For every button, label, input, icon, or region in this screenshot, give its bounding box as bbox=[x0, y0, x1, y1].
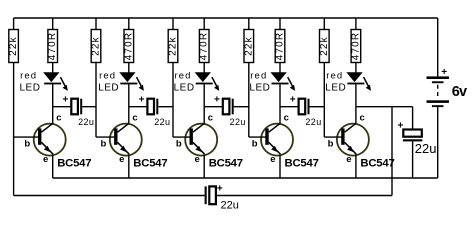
svg-text:b: b bbox=[328, 139, 334, 150]
wire feedback bottom bus right segment bbox=[216, 195, 392, 197]
capacitor C5 22u output bbox=[397, 107, 436, 178]
svg-text:c: c bbox=[132, 112, 137, 123]
wire 22k R7 to Q4 base bbox=[248, 63, 250, 138]
wire feedback bottom bus left segment bbox=[14, 195, 205, 197]
transistor Q4 BC547 bbox=[261, 123, 293, 155]
svg-text:22u: 22u bbox=[415, 141, 437, 156]
svg-text:b: b bbox=[24, 139, 30, 150]
svg-text:LED: LED bbox=[249, 82, 270, 93]
svg-text:470R: 470R bbox=[47, 32, 58, 61]
svg-text:+: + bbox=[214, 94, 220, 105]
svg-text:+: + bbox=[62, 94, 68, 105]
capacitor C4 22u coupling bbox=[280, 94, 324, 127]
LED D1 red bbox=[44, 73, 68, 91]
svg-text:470R: 470R bbox=[275, 32, 286, 61]
svg-text:22u: 22u bbox=[221, 199, 239, 211]
resistor R4 470R bbox=[123, 18, 134, 63]
resistor R6 470R bbox=[199, 18, 210, 63]
capacitor C2 22u coupling bbox=[129, 94, 173, 127]
resistor R10 470R bbox=[350, 18, 361, 63]
resistor R3 22k bbox=[91, 18, 102, 63]
capacitor C1 22u coupling bbox=[53, 94, 96, 127]
svg-text:c: c bbox=[56, 112, 61, 123]
svg-text:e: e bbox=[195, 154, 200, 165]
svg-text:+: + bbox=[217, 184, 223, 195]
svg-text:470R: 470R bbox=[123, 32, 134, 61]
svg-text:+: + bbox=[139, 94, 145, 105]
resistor R2 470R bbox=[47, 18, 58, 63]
wire 470R to LED D1 bbox=[52, 63, 54, 73]
wire LED D5 cathode to Q5 collector bbox=[355, 84, 357, 124]
wire 22k R9 to Q5 base bbox=[323, 63, 325, 138]
transistor Q1 BC547 bbox=[34, 123, 66, 155]
resistor R8 470R bbox=[275, 18, 286, 63]
svg-text:BC547: BC547 bbox=[57, 157, 91, 169]
svg-text:e: e bbox=[43, 154, 48, 165]
wire LED D1 cathode to Q1 collector bbox=[52, 84, 54, 124]
LED D3 red bbox=[196, 73, 220, 91]
capacitor C3 22u coupling bbox=[204, 94, 249, 127]
svg-text:LED: LED bbox=[174, 82, 195, 93]
wire top positive supply bus bbox=[14, 17, 438, 19]
svg-text:BC547: BC547 bbox=[133, 157, 167, 169]
wire 470R to LED D5 bbox=[355, 63, 357, 73]
svg-text:BC547: BC547 bbox=[360, 157, 394, 169]
svg-text:BC547: BC547 bbox=[285, 157, 319, 169]
wire Q3 emitter to ground bus bbox=[203, 155, 205, 178]
wire feedback Q5 collector down bbox=[391, 107, 393, 196]
svg-text:red: red bbox=[250, 70, 267, 81]
svg-text:e: e bbox=[346, 154, 351, 165]
wire Q4 emitter to ground bus bbox=[279, 155, 281, 178]
svg-text:red: red bbox=[175, 70, 192, 81]
svg-text:red: red bbox=[20, 70, 37, 81]
svg-text:22k: 22k bbox=[168, 36, 179, 56]
resistor R9 22k bbox=[319, 18, 330, 63]
LED D4 red bbox=[272, 73, 296, 91]
svg-text:b: b bbox=[101, 139, 107, 150]
svg-text:red: red bbox=[326, 70, 343, 81]
wire Q1 emitter to ground bus bbox=[52, 155, 54, 178]
wire 22k R3 to Q2 base bbox=[95, 63, 97, 138]
svg-text:+: + bbox=[290, 94, 296, 105]
svg-text:b: b bbox=[176, 139, 182, 150]
svg-text:e: e bbox=[119, 154, 124, 165]
svg-text:22k: 22k bbox=[319, 36, 330, 56]
wire 470R to LED D4 bbox=[279, 63, 281, 73]
wire 470R to LED D2 bbox=[128, 63, 130, 73]
transistor Q3 BC547 bbox=[185, 123, 217, 155]
svg-text:22u: 22u bbox=[305, 117, 321, 127]
svg-text:LED: LED bbox=[20, 82, 41, 93]
svg-text:6v: 6v bbox=[452, 84, 467, 100]
wire LED D4 cathode to Q4 collector bbox=[279, 84, 281, 124]
wire 22k R1 to Q1 base bbox=[13, 63, 15, 138]
resistor R5 22k bbox=[168, 18, 179, 63]
resistor R1 22k bbox=[8, 18, 19, 63]
svg-text:22k: 22k bbox=[91, 36, 102, 56]
svg-text:22k: 22k bbox=[243, 36, 254, 56]
wire LED D3 cathode to Q3 collector bbox=[203, 84, 205, 124]
wire Q5 emitter to ground bus bbox=[355, 155, 357, 178]
svg-text:22u: 22u bbox=[154, 117, 170, 127]
wire Q1 base column to bottom bus bbox=[13, 137, 15, 195]
svg-text:red: red bbox=[99, 70, 116, 81]
wire Q5 collector to output node bbox=[356, 106, 413, 108]
svg-text:LED: LED bbox=[325, 82, 346, 93]
LED D5 red bbox=[347, 73, 371, 91]
capacitor C6 22u feedback bbox=[205, 184, 239, 212]
svg-text:22k: 22k bbox=[8, 36, 19, 56]
svg-text:+: + bbox=[441, 67, 447, 78]
svg-text:470R: 470R bbox=[350, 32, 361, 61]
svg-text:e: e bbox=[270, 154, 275, 165]
svg-text:LED: LED bbox=[98, 82, 119, 93]
svg-text:+: + bbox=[397, 121, 403, 132]
svg-text:c: c bbox=[284, 112, 289, 123]
wire 22k R5 to Q3 base bbox=[172, 63, 174, 138]
svg-text:c: c bbox=[360, 112, 365, 123]
transistor Q5 BC547 bbox=[337, 123, 369, 155]
svg-text:22u: 22u bbox=[78, 117, 94, 127]
svg-text:BC547: BC547 bbox=[209, 157, 243, 169]
svg-text:22u: 22u bbox=[230, 117, 246, 127]
svg-text:470R: 470R bbox=[199, 32, 210, 61]
wire emitter ground bus bbox=[53, 177, 438, 179]
resistor R7 22k bbox=[243, 18, 254, 63]
wire 470R to LED D3 bbox=[203, 63, 205, 73]
svg-text:c: c bbox=[208, 112, 213, 123]
svg-text:b: b bbox=[252, 139, 258, 150]
wire LED D2 cathode to Q2 collector bbox=[128, 84, 130, 124]
wire Q2 emitter to ground bus bbox=[128, 155, 130, 178]
transistor Q2 BC547 bbox=[110, 123, 142, 155]
LED D2 red bbox=[120, 73, 144, 91]
battery BT1 6v bbox=[427, 18, 468, 178]
